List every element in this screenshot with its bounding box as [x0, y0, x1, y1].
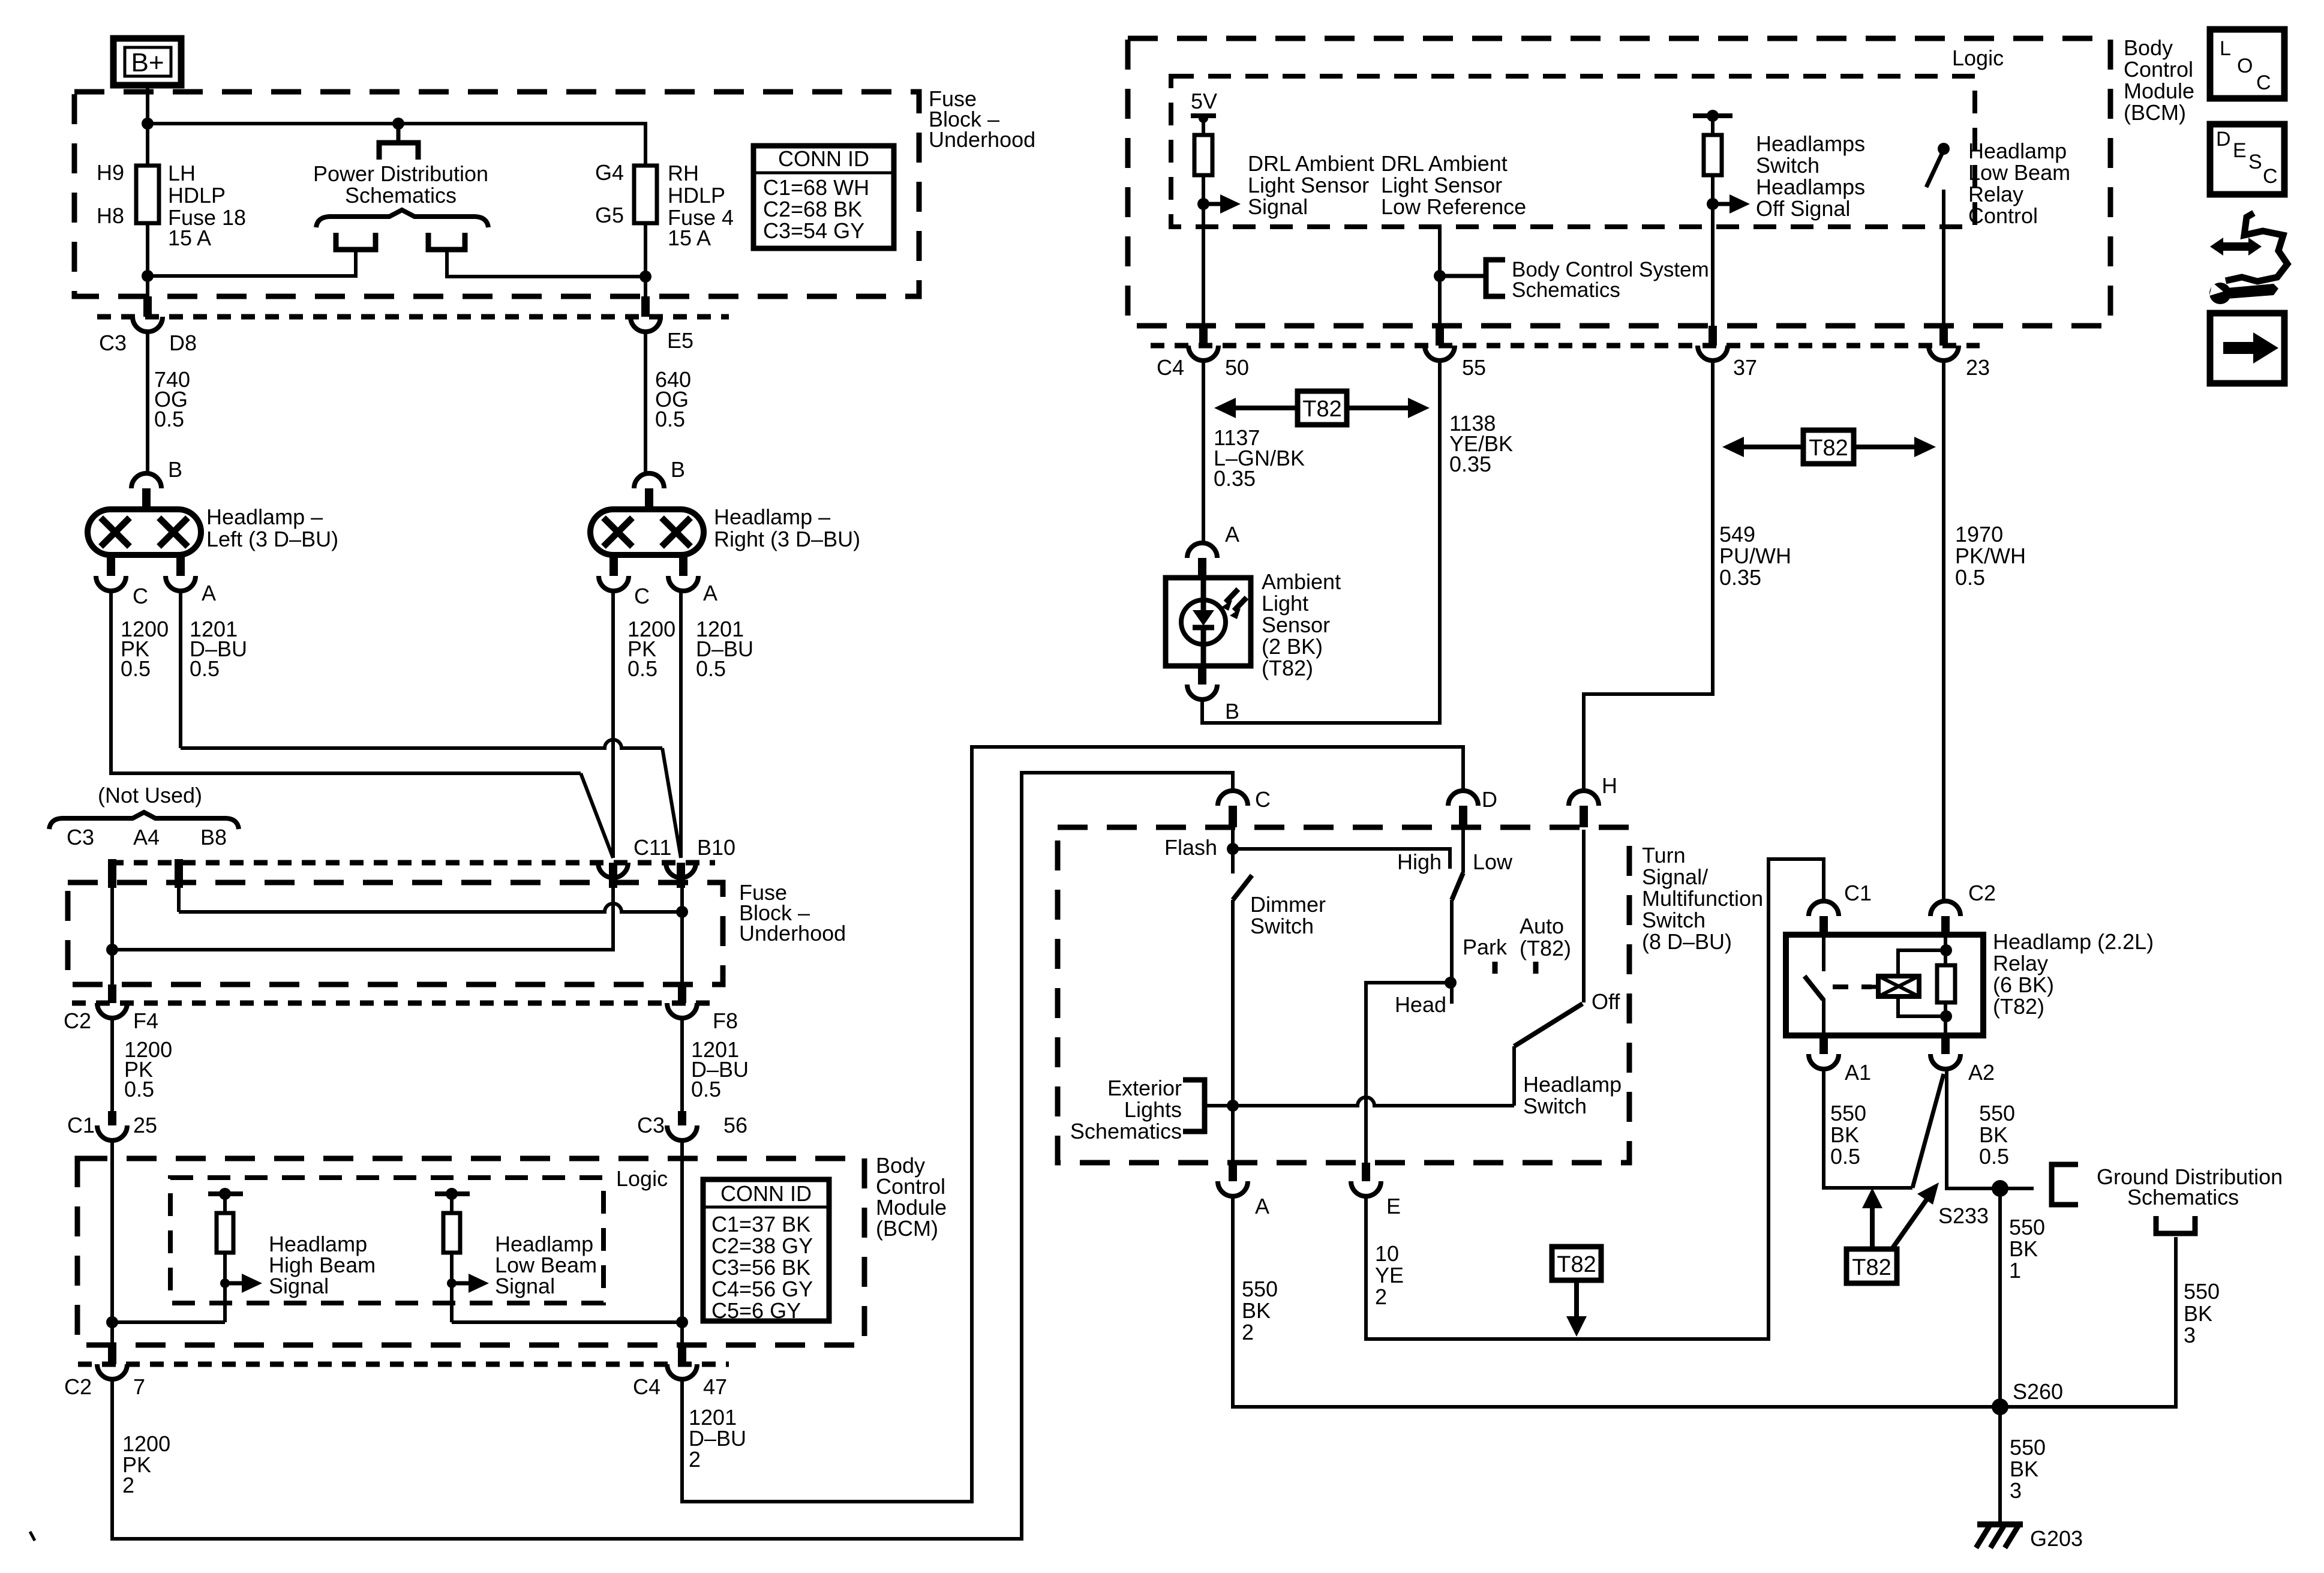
- svg-text:Flash: Flash: [1164, 835, 1217, 860]
- svg-text:Ambient: Ambient: [1262, 569, 1341, 594]
- wire BCM 47 to dimmer switch D: [682, 747, 1463, 1502]
- svg-text:550: 550: [2009, 1215, 2045, 1239]
- node dimmer common junction: [1227, 1100, 1239, 1112]
- power distribution tap symbol: [397, 124, 401, 143]
- connector A right headlamp: [679, 555, 687, 576]
- connector C11: [598, 863, 628, 878]
- connector line row 4: [1151, 343, 1980, 349]
- svg-text:Low Reference: Low Reference: [1381, 194, 1526, 219]
- svg-text:Relay: Relay: [1968, 182, 2023, 206]
- svg-text:T82: T82: [1557, 1252, 1596, 1277]
- svg-text:A: A: [202, 581, 216, 605]
- bracket right power distribution branch: [428, 233, 465, 250]
- svg-text:Headlamp: Headlamp: [1968, 139, 2067, 163]
- wire BCM 7 to dimmer switch C: [112, 773, 1233, 1539]
- svg-text:2: 2: [122, 1473, 134, 1497]
- svg-text:25: 25: [133, 1113, 157, 1137]
- svg-text:B: B: [1225, 699, 1239, 724]
- bracket exterior lights schematics: [1183, 1080, 1205, 1131]
- svg-text:PK/WH: PK/WH: [1955, 544, 2026, 568]
- svg-text:G203: G203: [2030, 1526, 2083, 1551]
- svg-text:(T82): (T82): [1993, 994, 2044, 1019]
- wire left headlamp A to connector B10: [181, 740, 662, 748]
- headlamp high beam signal driver: [208, 1191, 243, 1196]
- connector C left headlamp: [107, 555, 115, 576]
- svg-text:550: 550: [2010, 1435, 2046, 1460]
- node LH fuse bottom bus: [142, 270, 154, 282]
- lamp right headlamp body: [590, 509, 704, 555]
- svg-text:Headlamp –: Headlamp –: [714, 505, 830, 529]
- svg-text:C3: C3: [637, 1113, 665, 1137]
- headlamps switch off signal driver: [1693, 113, 1733, 118]
- svg-text:HDLP: HDLP: [168, 183, 226, 208]
- svg-text:15 A: 15 A: [168, 226, 211, 250]
- svg-text:B8: B8: [200, 825, 227, 849]
- svg-text:Headlamps: Headlamps: [1756, 175, 1865, 199]
- wire dimmer common down to A: [1231, 900, 1235, 1166]
- svg-text:Signal: Signal: [495, 1274, 555, 1298]
- svg-text:O: O: [2237, 55, 2253, 77]
- svg-text:A2: A2: [1968, 1060, 1995, 1085]
- svg-text:C1=68 WH: C1=68 WH: [763, 175, 869, 200]
- svg-text:Power Distribution: Power Distribution: [313, 161, 488, 186]
- ground distribution drop symbol: [2156, 1216, 2195, 1233]
- svg-text:Left (3 D–BU): Left (3 D–BU): [206, 527, 338, 551]
- wire 1201 D-BU to BCM C3: [680, 1017, 684, 1111]
- node junction B+ bus: [142, 118, 154, 130]
- wire pin A4 down to F4: [110, 882, 114, 987]
- wire pin 50 to sensor A: [1202, 360, 1205, 544]
- svg-text:T82: T82: [1809, 436, 1848, 461]
- svg-text:37: 37: [1733, 355, 1757, 380]
- svg-text:(6 BK): (6 BK): [1993, 972, 2054, 997]
- svg-text:A4: A4: [133, 825, 160, 849]
- svg-text:D8: D8: [169, 331, 197, 355]
- svg-text:Auto: Auto: [1520, 914, 1564, 938]
- page mark: [30, 1532, 35, 1541]
- connector line row 2: [110, 860, 715, 866]
- lamp left headlamp body: [88, 509, 201, 555]
- svg-text:A: A: [1225, 522, 1239, 547]
- svg-text:Switch: Switch: [1642, 908, 1706, 932]
- T82 marker relay grounds: [1846, 1249, 1897, 1283]
- svg-text:550: 550: [1242, 1277, 1278, 1301]
- svg-text:3: 3: [2010, 1478, 2022, 1503]
- svg-text:BK: BK: [2010, 1457, 2038, 1481]
- svg-text:Light Sensor: Light Sensor: [1248, 173, 1369, 197]
- svg-text:Module: Module: [2124, 79, 2194, 103]
- svg-text:0.5: 0.5: [121, 656, 151, 681]
- svg-text:Exterior: Exterior: [1107, 1076, 1182, 1100]
- svg-text:7: 7: [133, 1374, 145, 1399]
- svg-text:Schematics: Schematics: [1512, 278, 1620, 302]
- connector B10: [666, 863, 696, 878]
- svg-text:A: A: [703, 581, 717, 605]
- svg-text:549: 549: [1719, 522, 1755, 547]
- svg-text:D: D: [1482, 787, 1497, 812]
- svg-text:3: 3: [2184, 1323, 2196, 1347]
- svg-text:BK: BK: [1830, 1122, 1859, 1147]
- wire BCM pin 55 low reference: [1438, 227, 1442, 331]
- svg-text:0.5: 0.5: [1979, 1144, 2009, 1169]
- svg-text:Control: Control: [2124, 57, 2193, 82]
- svg-text:Dimmer: Dimmer: [1250, 892, 1326, 917]
- svg-text:C: C: [2256, 71, 2271, 94]
- connector line row 5: [78, 1362, 729, 1367]
- relay coil: [1867, 985, 1878, 989]
- svg-text:S: S: [2248, 151, 2262, 173]
- svg-text:E5: E5: [667, 328, 693, 353]
- svg-text:C: C: [1255, 787, 1271, 812]
- svg-text:Turn: Turn: [1642, 843, 1686, 867]
- svg-text:C3: C3: [67, 825, 94, 849]
- pin B8 stub: [175, 859, 183, 888]
- connector B left headlamp: [131, 473, 161, 488]
- svg-text:A: A: [1255, 1194, 1269, 1218]
- svg-text:C2=68 BK: C2=68 BK: [763, 197, 862, 221]
- off contact and headlamp switch wiper: [1582, 830, 1586, 1002]
- connector F8: [678, 984, 686, 1003]
- svg-text:23: 23: [1966, 355, 1990, 380]
- headlamp low beam signal driver: [435, 1191, 470, 1196]
- svg-text:HDLP: HDLP: [668, 183, 725, 208]
- connector A2 relay: [1941, 1035, 1950, 1054]
- connector A1 relay: [1819, 1035, 1828, 1054]
- svg-text:B+: B+: [131, 48, 164, 77]
- svg-text:C3=56 BK: C3=56 BK: [711, 1255, 810, 1280]
- splice S260: [1992, 1398, 2008, 1415]
- connector B right headlamp: [634, 473, 664, 488]
- svg-text:47: 47: [703, 1374, 727, 1399]
- icon remove install: [2226, 213, 2287, 281]
- table CONN ID BCM: [703, 1179, 829, 1321]
- svg-text:Park: Park: [1463, 935, 1508, 959]
- svg-text:Light Sensor: Light Sensor: [1381, 173, 1502, 197]
- turn signal multifunction switch dashed box: [1058, 827, 1629, 1163]
- svg-text:YE: YE: [1375, 1263, 1404, 1287]
- park contact tick: [1493, 962, 1498, 974]
- svg-text:C: C: [2263, 165, 2278, 188]
- relay coil parallel resistor wires: [1898, 950, 1946, 976]
- wire relay A2 to splice S233: [1947, 1068, 2034, 1188]
- wire left headlamp C to connector C11: [111, 590, 581, 773]
- svg-text:Right (3 D–BU): Right (3 D–BU): [714, 527, 860, 551]
- wire headlamp switch common to exterior lights: [1206, 1097, 1514, 1106]
- pin A4 stub: [108, 859, 116, 888]
- wire B+ to fuse block: [146, 85, 149, 168]
- node high beam junction: [106, 1316, 118, 1328]
- node power distribution tap: [392, 118, 404, 130]
- svg-text:S260: S260: [2013, 1379, 2063, 1404]
- svg-text:0.5: 0.5: [655, 407, 685, 431]
- svg-text:(BCM): (BCM): [876, 1216, 938, 1241]
- wire flash junction: [1231, 830, 1235, 873]
- svg-text:C2: C2: [64, 1008, 91, 1033]
- svg-text:(8 D–BU): (8 D–BU): [1642, 929, 1732, 954]
- svg-text:Headlamp: Headlamp: [1523, 1072, 1622, 1097]
- svg-text:C5=6 GY: C5=6 GY: [711, 1298, 801, 1323]
- connector 23: [1939, 326, 1948, 346]
- svg-text:Control: Control: [1968, 203, 2038, 228]
- wire switch A to ground splice S260: [1233, 1195, 2176, 1407]
- BCM logic inner dashed box: [170, 1178, 603, 1303]
- wire 640 OG to right headlamp: [644, 331, 647, 475]
- svg-text:T82: T82: [1852, 1255, 1891, 1280]
- connector C2 7: [108, 1345, 116, 1364]
- wire BCM pin 56 internal: [680, 1139, 684, 1348]
- svg-text:A1: A1: [1845, 1060, 1871, 1085]
- svg-text:Switch: Switch: [1250, 914, 1314, 938]
- wire relay A1 to A2 joint: [1824, 1068, 1912, 1188]
- svg-text:0.5: 0.5: [696, 656, 726, 681]
- svg-text:Off: Off: [1592, 989, 1620, 1014]
- svg-text:Light: Light: [1262, 591, 1308, 616]
- svg-text:High: High: [1397, 849, 1442, 874]
- svg-text:Signal: Signal: [269, 1274, 329, 1298]
- ambient light sensor box: [1166, 578, 1251, 666]
- connector C1 25: [108, 1111, 116, 1125]
- brace not used pins: [49, 812, 239, 829]
- svg-text:56: 56: [723, 1113, 747, 1137]
- icon arrow box: [2210, 313, 2284, 383]
- svg-text:C4=56 GY: C4=56 GY: [711, 1277, 813, 1301]
- svg-text:(T82): (T82): [1262, 656, 1313, 680]
- fuse LH HDLP Fuse 18: [136, 166, 159, 223]
- wire relay C2 through resistor: [1944, 935, 1947, 1035]
- connector C2 F4: [108, 984, 116, 1003]
- connector C right headlamp: [609, 555, 618, 576]
- brace power distribution schematics: [316, 210, 488, 227]
- svg-text:C2=38 GY: C2=38 GY: [711, 1233, 813, 1258]
- svg-text:B: B: [168, 457, 182, 482]
- body control module BCM dashed box top: [1128, 38, 2110, 326]
- svg-text:Body: Body: [2124, 35, 2173, 60]
- svg-text:C3=54 GY: C3=54 GY: [763, 218, 864, 243]
- icon DESC box: [2210, 124, 2284, 194]
- svg-text:BK: BK: [1979, 1122, 2008, 1147]
- battery feed B+ symbol: [113, 38, 181, 85]
- svg-text:Low Beam: Low Beam: [1968, 160, 2070, 185]
- svg-text:Schematics: Schematics: [345, 183, 457, 208]
- svg-text:BK: BK: [2009, 1236, 2038, 1261]
- light arrows into sensor: [1226, 589, 1247, 611]
- svg-text:C11: C11: [633, 835, 671, 860]
- svg-text:CONN ID: CONN ID: [720, 1181, 812, 1206]
- bracket ground distribution schematics: [2052, 1164, 2078, 1205]
- svg-text:L: L: [2220, 37, 2231, 60]
- svg-text:C: C: [634, 584, 650, 608]
- node RH fuse bottom bus: [639, 271, 651, 283]
- svg-text:C4: C4: [1157, 355, 1184, 380]
- svg-text:F4: F4: [133, 1008, 158, 1033]
- svg-text:LH: LH: [168, 161, 196, 185]
- wire right headlamp A to connector B10: [679, 590, 683, 858]
- icon LOC box: [2210, 29, 2284, 98]
- svg-text:1970: 1970: [1955, 522, 2003, 547]
- connector C3 D8: [143, 296, 152, 317]
- svg-text:Signal: Signal: [1248, 194, 1308, 219]
- svg-text:Schematics: Schematics: [2127, 1185, 2239, 1209]
- node low beam junction: [676, 1316, 688, 1328]
- relay internal resistor: [1937, 965, 1955, 1002]
- svg-text:0.35: 0.35: [1449, 452, 1491, 476]
- svg-text:Switch: Switch: [1523, 1094, 1587, 1118]
- svg-text:C1=37 BK: C1=37 BK: [711, 1212, 810, 1236]
- connector C1 relay: [1809, 901, 1839, 916]
- photodiode symbol: [1181, 600, 1226, 644]
- headlamp low beam relay control driver: [1938, 143, 1950, 155]
- svg-text:0.5: 0.5: [1955, 565, 1985, 590]
- BCM logic box top dashed: [1171, 76, 1975, 227]
- wire sensor B to pin 55: [1202, 360, 1440, 723]
- svg-text:0.5: 0.5: [124, 1077, 154, 1101]
- svg-text:10: 10: [1375, 1241, 1399, 1266]
- wire right branch to RH fuse bus: [447, 250, 645, 277]
- svg-text:B10: B10: [697, 835, 735, 860]
- svg-text:Relay: Relay: [1993, 951, 2048, 975]
- svg-text:C2: C2: [64, 1374, 92, 1399]
- auto contact tick: [1533, 962, 1539, 974]
- node A4 internal junction: [106, 944, 118, 956]
- svg-text:2: 2: [1242, 1320, 1254, 1344]
- svg-text:(T82): (T82): [1520, 936, 1571, 960]
- svg-text:DRL Ambient: DRL Ambient: [1248, 151, 1374, 176]
- svg-text:G4: G4: [595, 160, 624, 185]
- wire switch E to relay C1: [1366, 859, 1824, 1339]
- ground G203: [1977, 1521, 2023, 1527]
- connector A left headlamp: [176, 555, 185, 576]
- connector line row 1: [97, 314, 729, 320]
- T82 twisted pair arrow 37-23: [1740, 445, 1918, 449]
- svg-text:550: 550: [2184, 1279, 2220, 1304]
- svg-text:RH: RH: [668, 161, 699, 185]
- svg-text:BK: BK: [1242, 1298, 1271, 1323]
- connector A multifunction switch: [1229, 1163, 1237, 1181]
- svg-text:C1: C1: [1844, 881, 1872, 905]
- svg-text:0.35: 0.35: [1719, 565, 1761, 590]
- connector H headlamp switch: [1569, 791, 1599, 806]
- svg-text:CONN ID: CONN ID: [778, 146, 869, 171]
- svg-text:G5: G5: [595, 203, 624, 227]
- wire head junction to E: [1366, 983, 1451, 1166]
- wire A4 junction to C11 internal: [112, 883, 613, 950]
- svg-text:(BCM): (BCM): [2124, 100, 2186, 125]
- svg-text:0.5: 0.5: [154, 407, 184, 431]
- svg-text:55: 55: [1462, 355, 1486, 380]
- svg-text:Low: Low: [1473, 849, 1513, 874]
- svg-text:0.5: 0.5: [190, 656, 220, 681]
- svg-text:F8: F8: [713, 1008, 738, 1033]
- connector C2 relay: [1930, 901, 1960, 916]
- wire RH fuse to connector E5: [644, 223, 647, 302]
- connector C4 47: [678, 1345, 686, 1364]
- wire right headlamp C to connector C11: [611, 590, 615, 858]
- svg-text:Schematics: Schematics: [1070, 1119, 1182, 1143]
- svg-text:T82: T82: [1302, 397, 1341, 422]
- svg-text:E: E: [2233, 139, 2247, 162]
- svg-text:BK: BK: [2184, 1301, 2212, 1326]
- svg-text:C4: C4: [633, 1374, 660, 1399]
- svg-text:Off Signal: Off Signal: [1756, 196, 1850, 221]
- relay box: [1786, 935, 1983, 1035]
- svg-text:5V: 5V: [1191, 89, 1217, 113]
- wire 1200 PK to BCM C1: [110, 1017, 114, 1111]
- svg-text:2: 2: [1375, 1284, 1387, 1309]
- svg-text:Switch: Switch: [1756, 153, 1819, 178]
- svg-text:15 A: 15 A: [668, 226, 711, 250]
- relay contact: [1822, 935, 1825, 971]
- wire left branch to LH fuse bus: [148, 250, 356, 276]
- wire LH fuse to connector C3 D8: [146, 223, 149, 302]
- node DRL signal junction: [1197, 198, 1209, 210]
- svg-text:S233: S233: [1938, 1203, 1989, 1228]
- svg-text:D: D: [2216, 128, 2231, 151]
- table CONN ID fuse block underhood: [753, 146, 894, 248]
- connector 55: [1436, 326, 1444, 346]
- svg-text:H9: H9: [97, 160, 124, 185]
- dimmer switch blade: [1233, 875, 1252, 900]
- connector E multifunction switch: [1362, 1163, 1370, 1181]
- connector 37: [1709, 326, 1717, 346]
- wire flash to high contact: [1233, 849, 1450, 869]
- resistor DRL sensor pullup: [1202, 116, 1205, 135]
- svg-text:E: E: [1386, 1194, 1401, 1218]
- bracket left power distribution branch: [336, 233, 376, 250]
- svg-text:550: 550: [1830, 1101, 1866, 1125]
- connector C4 50: [1199, 326, 1208, 346]
- svg-text:0.5: 0.5: [1830, 1144, 1860, 1169]
- svg-text:Headlamps: Headlamps: [1756, 131, 1865, 156]
- wire 740 OG to left headlamp: [146, 331, 149, 475]
- svg-text:B: B: [671, 457, 685, 482]
- wire S260 to ground: [1998, 1407, 2002, 1524]
- svg-text:Headlamp (2.2L): Headlamp (2.2L): [1993, 929, 2154, 954]
- svg-text:Sensor: Sensor: [1262, 613, 1330, 637]
- svg-text:1: 1: [2009, 1258, 2021, 1283]
- wire pin B8 to B10 internal: [179, 903, 682, 912]
- node body control system tap: [1434, 270, 1446, 282]
- svg-text:H8: H8: [97, 203, 124, 228]
- splice S233: [1992, 1180, 2008, 1197]
- svg-text:Underhood: Underhood: [929, 127, 1035, 152]
- node head junction: [1445, 977, 1457, 989]
- connector B ambient light sensor: [1198, 666, 1206, 685]
- wire low to park junction: [1450, 900, 1454, 1004]
- svg-text:(2 BK): (2 BK): [1262, 634, 1323, 659]
- wire S233 to S260: [1998, 1188, 2002, 1407]
- svg-text:Headlamp –: Headlamp –: [206, 505, 323, 529]
- connector line row 3: [72, 1001, 715, 1006]
- svg-text:0.5: 0.5: [691, 1077, 721, 1101]
- connector E5: [641, 296, 650, 317]
- svg-text:0.35: 0.35: [1214, 466, 1256, 491]
- svg-text:Lights: Lights: [1124, 1097, 1182, 1122]
- wire BCM pin 25 internal: [110, 1139, 114, 1348]
- T82 twisted pair arrow 50-55: [1232, 406, 1412, 410]
- svg-text:Signal/: Signal/: [1642, 864, 1708, 889]
- fuse block underhood dashed box: [74, 92, 919, 296]
- connector D dimmer switch: [1448, 791, 1478, 806]
- T82 marker switch A-E: [1552, 1247, 1601, 1280]
- svg-text:0.5: 0.5: [627, 656, 657, 681]
- svg-text:50: 50: [1225, 355, 1249, 380]
- svg-text:(Not Used): (Not Used): [98, 783, 202, 807]
- connector C dimmer switch: [1218, 791, 1248, 806]
- svg-text:Underhood: Underhood: [739, 921, 846, 945]
- wire pin 23 to relay C2: [1942, 360, 1945, 901]
- svg-text:C3: C3: [99, 331, 127, 355]
- node B10 internal junction: [676, 906, 688, 918]
